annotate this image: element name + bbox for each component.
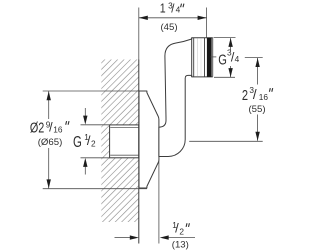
dim 1/2 extension right xyxy=(158,157,160,244)
arrow left xyxy=(139,16,148,20)
G3/4 dim line + arrows xyxy=(230,38,232,50)
wall face line xyxy=(138,60,140,244)
svg-text:/: / xyxy=(253,87,257,102)
svg-text:(Ø65): (Ø65) xyxy=(38,137,63,148)
dim 1 3/4 extension left xyxy=(138,8,140,60)
dim 2 3/16 extension top xyxy=(245,57,263,59)
svg-text:(45): (45) xyxy=(160,22,177,33)
G1/2 arrows xyxy=(84,108,86,121)
G1/2 text xyxy=(73,132,96,150)
2 3/16 text xyxy=(242,85,273,115)
G1/2 extension bottom xyxy=(81,157,111,159)
svg-text:1: 1 xyxy=(160,2,166,16)
O65 dim line + arrows xyxy=(48,91,50,119)
svg-text:(13): (13) xyxy=(172,240,189,250)
svg-text:G: G xyxy=(73,133,82,150)
2 3/16 dim line + arrows xyxy=(257,58,259,85)
dim O65 extension top xyxy=(43,90,139,92)
arrow right xyxy=(198,16,207,20)
dim 2 3/16 extension bottom xyxy=(189,140,263,142)
fitting body: down tube, top elbow, union nut silhouette xyxy=(159,38,213,157)
thread band G3/4 xyxy=(207,38,212,77)
G1/2 extension top xyxy=(81,124,111,126)
dim 1/2 line left xyxy=(115,237,131,239)
G3/4 leader dash xyxy=(211,56,217,58)
svg-text:2: 2 xyxy=(91,139,96,149)
pipe tail G1/2 in wall xyxy=(110,125,139,158)
escutcheon rim and cone xyxy=(139,91,159,188)
svg-text:16: 16 xyxy=(53,125,63,135)
svg-text:G: G xyxy=(218,51,227,68)
union nut face lines xyxy=(191,38,193,77)
thread end face xyxy=(212,38,214,76)
svg-text:(55): (55) xyxy=(248,104,265,115)
1/2 text xyxy=(172,220,190,250)
O65 text xyxy=(30,119,69,148)
svg-text:4: 4 xyxy=(176,5,181,15)
svg-text:4: 4 xyxy=(235,54,240,64)
dim G3/4 extension bottom xyxy=(214,76,235,78)
G3/4 text xyxy=(218,48,239,68)
dim O65 extension bottom xyxy=(43,188,147,190)
dim 1 3/4 line xyxy=(139,17,207,19)
dim 1/2 line right xyxy=(168,237,196,239)
svg-text:Ø2: Ø2 xyxy=(30,119,44,136)
dim 1 3/4 text xyxy=(160,0,184,33)
dim G3/4 extension top xyxy=(214,37,236,39)
nut shading xyxy=(197,39,199,77)
svg-text:2: 2 xyxy=(179,227,184,237)
svg-text:2: 2 xyxy=(242,87,248,104)
dim 1 3/4 extension right xyxy=(206,8,208,38)
svg-text:16: 16 xyxy=(259,92,269,102)
